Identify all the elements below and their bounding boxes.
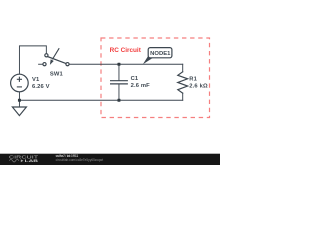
svg-text:RC Circuit: RC Circuit <box>110 47 142 54</box>
svg-text:V1: V1 <box>32 77 40 83</box>
svg-text:SW1: SW1 <box>50 71 64 77</box>
svg-text:2.6 kΩ: 2.6 kΩ <box>189 83 208 89</box>
svg-text:C1: C1 <box>131 76 139 82</box>
svg-text:2.6 mF: 2.6 mF <box>131 83 151 89</box>
svg-text:circuitlab.com/cc8eTe5yy65zcqw: circuitlab.com/cc8eTe5yy65zcqwt <box>56 158 104 162</box>
svg-text:6.26 V: 6.26 V <box>32 84 50 90</box>
svg-text:R1: R1 <box>189 76 197 82</box>
svg-text:LAB: LAB <box>25 158 39 163</box>
svg-text:NODE1: NODE1 <box>150 51 170 57</box>
